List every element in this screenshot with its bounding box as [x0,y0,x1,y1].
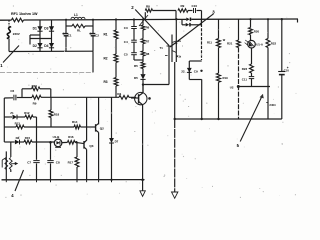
svg-text:1k: 1k [178,54,181,58]
svg-text:R8: R8 [146,4,150,8]
svg-text:Q3: Q3 [89,144,93,148]
svg-text:C5: C5 [124,52,128,56]
svg-text:2404: 2404 [269,103,276,107]
svg-text:C6: C6 [10,89,14,93]
svg-text:R7: R7 [146,39,150,43]
svg-text:R5: R5 [134,64,138,68]
svg-text:R15: R15 [25,136,31,140]
svg-text:R18: R18 [54,112,60,116]
svg-text:U1-A: U1-A [256,43,264,47]
svg-text:R23: R23 [242,67,248,71]
svg-text:Z1: Z1 [10,111,14,115]
svg-text:RL: RL [77,28,81,32]
svg-text:C1: C1 [68,34,72,38]
svg-text:+: + [287,66,289,70]
svg-text:Q2: Q2 [100,127,104,131]
svg-text:R9: R9 [33,102,37,106]
svg-text:R14: R14 [72,120,78,124]
svg-text:R20: R20 [254,29,260,33]
svg-text:D7: D7 [115,139,119,143]
svg-text:220V: 220V [13,32,20,36]
svg-text:R10: R10 [32,84,38,88]
svg-text:22.: 22. [181,70,185,74]
svg-text:R6: R6 [146,26,150,30]
svg-text:R22: R22 [271,41,277,45]
svg-text:D5: D5 [134,76,138,80]
svg-text:R16: R16 [68,135,74,139]
svg-text:R2: R2 [104,57,108,61]
svg-text:R12: R12 [24,111,30,115]
svg-text:RF1 1kohm 1W: RF1 1kohm 1W [11,12,38,16]
svg-text:C3: C3 [124,26,128,30]
svg-text:L1: L1 [74,13,78,17]
svg-text:D2: D2 [33,44,37,48]
svg-text:T1: T1 [160,46,164,50]
svg-text:D3: D3 [44,27,48,31]
svg-text:C11: C11 [242,78,248,82]
svg-text:R19: R19 [223,76,229,80]
svg-text:R17: R17 [68,161,74,165]
svg-text:R8: R8 [146,52,150,56]
svg-text:R21: R21 [227,42,233,46]
svg-text:C2: C2 [95,34,99,38]
svg-text:R1: R1 [104,32,108,36]
svg-text:R3: R3 [104,80,108,84]
svg-text:C8: C8 [56,161,60,165]
svg-text:U2: U2 [230,85,234,89]
svg-text:C9: C9 [194,70,198,74]
svg-text:C7: C7 [27,161,31,165]
svg-text:R13: R13 [15,121,21,125]
svg-text:1k: 1k [178,39,181,43]
svg-text:R11: R11 [207,41,212,45]
svg-text:R9: R9 [181,4,185,8]
svg-text:U1-B: U1-B [53,135,60,139]
svg-text:R4: R4 [117,92,121,96]
svg-text:D4: D4 [44,44,48,48]
svg-text:C10: C10 [192,4,198,8]
svg-text:C4: C4 [124,40,128,44]
svg-text:D1: D1 [33,27,37,31]
